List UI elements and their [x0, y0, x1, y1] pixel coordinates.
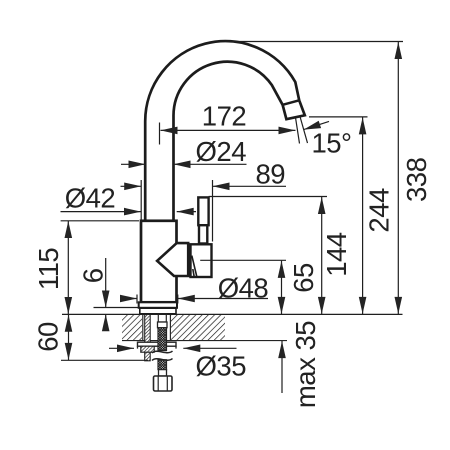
handle cone cap — [157, 243, 188, 276]
arrow d24 left — [129, 161, 146, 169]
arrow 244 bottom — [359, 297, 367, 314]
countertop left block — [122, 314, 142, 340]
svg-text:60: 60 — [33, 322, 64, 352]
base plate — [139, 302, 177, 308]
svg-text:244: 244 — [363, 188, 394, 233]
dim 115 extension line — [61, 220, 139, 222]
svg-text:338: 338 — [401, 157, 432, 202]
mounting nut — [141, 346, 154, 352]
arrow 115 bottom — [65, 297, 73, 314]
faucet body cylinder — [141, 221, 177, 302]
dim Ø48 line — [120, 298, 268, 300]
dim 338 line — [397, 42, 399, 314]
hose upper braid — [158, 328, 167, 351]
svg-text:115: 115 — [33, 248, 64, 291]
dim 144 extension line — [209, 196, 327, 198]
arrow 60 bottom — [65, 343, 73, 360]
dim Ø35 leader — [109, 347, 237, 349]
spout gooseneck tube — [145, 41, 305, 221]
dim 6 extension line — [94, 307, 140, 309]
dim 244 extension line — [309, 116, 368, 118]
hose break squiggle — [152, 351, 173, 361]
arrow 115 top — [65, 221, 73, 238]
base gasket — [140, 308, 176, 314]
arrowheads — [65, 42, 403, 360]
arrow 144 top — [318, 197, 326, 214]
countertop right block — [171, 314, 225, 340]
housing inner wedge — [192, 256, 197, 277]
svg-text:65: 65 — [288, 263, 319, 293]
arrow 172 right / 15deg left — [279, 127, 296, 135]
dim 89 extension lines — [141, 180, 212, 242]
arrow 338 bottom — [395, 297, 403, 314]
arrow max35 — [278, 341, 286, 358]
svg-text:6: 6 — [78, 268, 109, 283]
hose lower braid — [158, 360, 167, 370]
svg-text:Ø24: Ø24 — [196, 136, 247, 167]
15deg extension line B — [300, 117, 308, 144]
svg-text:144: 144 — [321, 232, 352, 277]
arrow 6 top — [102, 291, 110, 308]
handle lever stick upper — [198, 197, 208, 225]
hose ferrule — [158, 322, 168, 328]
svg-text:Ø42: Ø42 — [65, 183, 115, 214]
dim Ø24 line — [121, 163, 247, 165]
arrow 172 left — [161, 127, 178, 135]
arrow d48 left — [120, 295, 137, 303]
arrow d35 left — [117, 345, 134, 353]
arrow 89 left — [124, 183, 141, 191]
dim 65 extension line — [200, 259, 286, 261]
dim 60 bottom extension line — [61, 359, 148, 361]
hose nut facets — [158, 376, 167, 391]
horseshoe washer — [138, 342, 177, 346]
dim Ø48 extension ticks — [137, 295, 178, 304]
svg-text:172: 172 — [202, 100, 246, 131]
arrow 65 top — [278, 261, 286, 278]
dim 338 top extension line — [225, 41, 403, 43]
dim 65 line — [281, 261, 283, 314]
arrow d42 right — [177, 208, 194, 216]
hose end nut — [154, 376, 173, 391]
arrow 89 right — [213, 183, 230, 191]
threaded stud — [145, 314, 151, 360]
arrow d35 right — [183, 345, 200, 353]
arrow 338 top — [395, 42, 403, 59]
svg-text:max 35: max 35 — [290, 321, 321, 408]
dim max35 line — [281, 341, 283, 393]
arrow 144 bottom — [318, 297, 326, 314]
dim 172 centerline tick — [159, 123, 161, 145]
dim 115 line — [67, 221, 69, 314]
hose top tube — [158, 314, 166, 322]
svg-text:89: 89 — [256, 159, 286, 190]
spout aerator joint line — [283, 100, 300, 105]
washer end ticks — [138, 346, 177, 348]
arrow d42 left — [124, 208, 141, 216]
dim 60 line — [68, 314, 70, 360]
cartridge housing — [191, 244, 212, 277]
15deg extension line A — [296, 118, 300, 144]
arrow 6 bottom — [102, 314, 110, 331]
handle lever stick lower — [199, 225, 207, 243]
dim 172 line — [161, 129, 296, 131]
base line — [62, 313, 403, 315]
svg-text:Ø35: Ø35 — [196, 351, 247, 382]
dim 6 line — [105, 258, 107, 330]
hose fitting neck — [159, 370, 167, 376]
dim 89 line — [121, 185, 287, 187]
countertop hole edges — [143, 314, 171, 340]
15deg arrow tail — [304, 121, 329, 129]
arrow 15deg right — [304, 121, 321, 130]
dim 244 line — [362, 117, 364, 314]
arrow 244 top — [359, 117, 367, 134]
arrow 60 top — [65, 315, 73, 332]
arrow 65 bottom — [278, 297, 286, 314]
arrow d48 right — [178, 295, 195, 303]
countertop bottom line — [122, 340, 287, 342]
dim 144 line — [321, 197, 323, 314]
svg-text:15°: 15° — [311, 127, 351, 158]
dim Ø42 line — [61, 211, 197, 213]
svg-text:Ø48: Ø48 — [218, 273, 269, 304]
arrow d24 right — [174, 161, 191, 169]
